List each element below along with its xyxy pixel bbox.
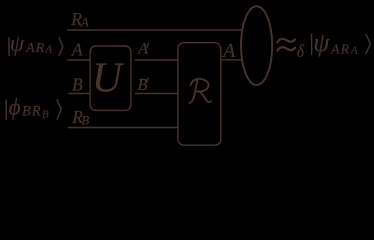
svg-text:ϕ: ϕ <box>9 95 21 121</box>
approx symbol (wavy) <box>277 39 295 51</box>
svg-text:δ: δ <box>297 41 304 62</box>
svg-text:ψ: ψ <box>10 31 25 56</box>
svg-text:B: B <box>82 114 90 128</box>
label R_A <box>70 9 89 30</box>
wire B' <box>135 93 178 95</box>
svg-text:A: A <box>45 44 53 55</box>
wire A' <box>135 59 179 61</box>
wire A input <box>67 59 90 61</box>
box U1 unitary <box>90 46 131 110</box>
svg-text:BR: BR <box>22 104 42 120</box>
ket phi_BRB left <box>6 95 61 121</box>
ket psi_ARA left <box>9 31 63 56</box>
gate letter script R <box>190 79 211 103</box>
wire A output <box>221 59 242 61</box>
svg-text:B: B <box>137 75 147 94</box>
svg-text:B: B <box>72 75 83 95</box>
wire R_B rail <box>68 127 178 129</box>
svg-text:U: U <box>92 56 125 102</box>
box R recovery <box>178 43 221 146</box>
svg-text:A: A <box>71 39 83 59</box>
ket psi_ARA right <box>312 28 371 57</box>
label R_B <box>71 107 89 128</box>
ellipse output grouping <box>241 6 272 85</box>
svg-text:A: A <box>80 16 89 30</box>
wire R_A rail <box>67 29 241 31</box>
svg-text:AR: AR <box>25 40 45 56</box>
svg-text:A: A <box>350 46 358 57</box>
svg-text:AR: AR <box>330 41 350 56</box>
svg-text:B: B <box>42 108 49 120</box>
svg-text:ψ: ψ <box>313 28 330 57</box>
svg-text:A: A <box>137 41 148 58</box>
svg-text:A: A <box>221 40 236 62</box>
wire B input <box>69 93 91 95</box>
